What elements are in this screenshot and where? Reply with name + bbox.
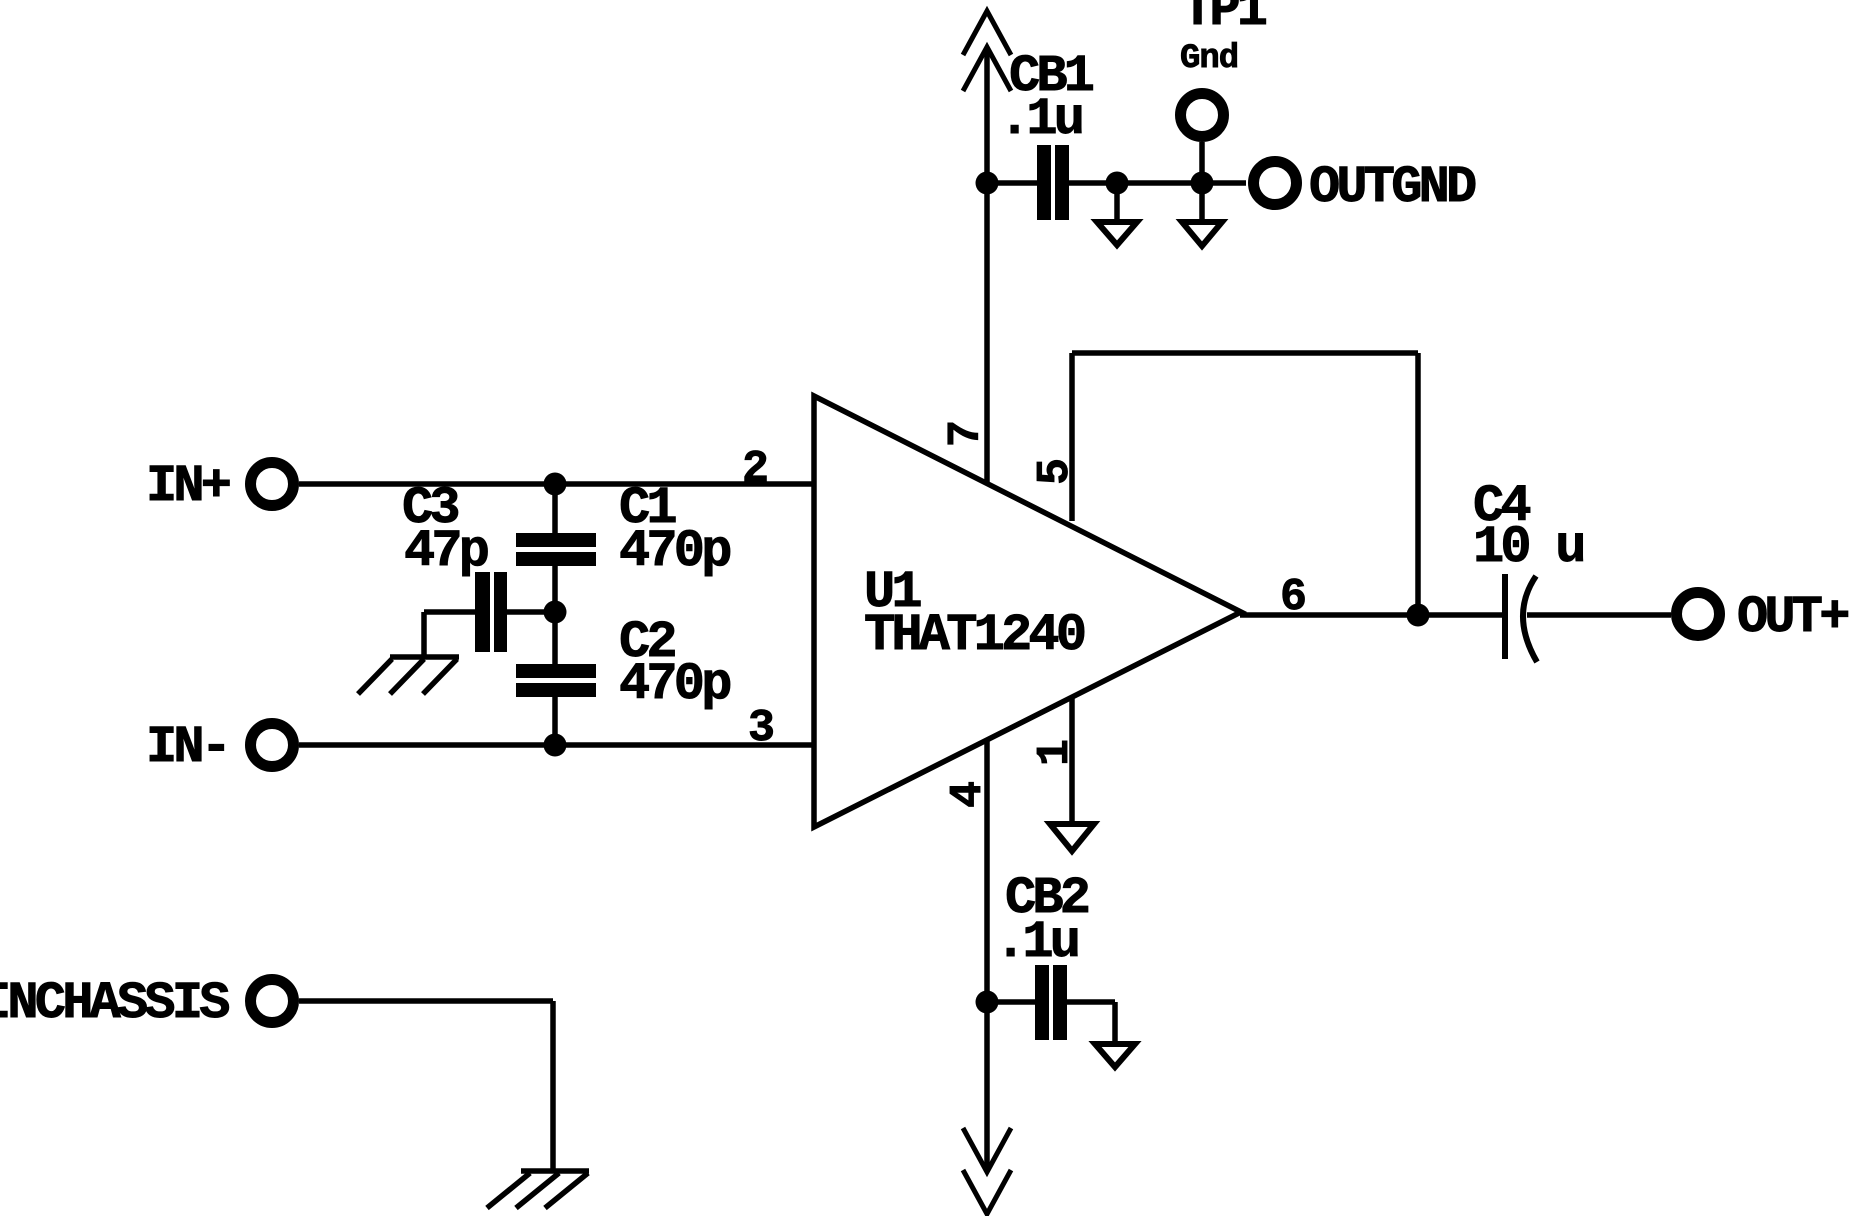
ground arrow under CB2 (1095, 1044, 1135, 1067)
node junction V+ / CB1 (976, 172, 999, 195)
wire IN- horizontal (299, 742, 814, 748)
svg-text:470p: 470p (619, 655, 730, 714)
svg-text:INCHASSIS: INCHASSIS (0, 974, 229, 1033)
wire CB1 right to OUTGND (1069, 180, 1246, 186)
wire CB2 right (1067, 999, 1115, 1005)
node junction CB1/gnd (1106, 172, 1129, 195)
wire vertical C2 bottom segment (552, 695, 558, 745)
wire V- rail pin4 (984, 740, 990, 1172)
wire C4 to OUT+ (1527, 612, 1671, 618)
svg-text:2: 2 (742, 444, 769, 495)
ground arrow under TP1 (1182, 183, 1222, 246)
node junction feedback/output (1407, 604, 1430, 627)
svg-text:OUTGND: OUTGND (1309, 158, 1476, 217)
wire C3 ground drop (421, 612, 427, 657)
terminal IN+ (146, 457, 294, 516)
node junction IN+/C1 (544, 473, 567, 496)
wire pin5 vertical (1069, 353, 1075, 521)
ground arrow under CB1 (1097, 183, 1137, 245)
svg-text:THAT1240: THAT1240 (864, 606, 1085, 665)
svg-text:IN-: IN- (146, 718, 228, 777)
wire CB2 left (987, 999, 1035, 1005)
capacitor CB1 .1u (999, 47, 1093, 220)
wire output pin6 (1240, 612, 1502, 618)
svg-text:IN+: IN+ (146, 457, 230, 516)
svg-text:10 u: 10 u (1473, 518, 1583, 577)
svg-text:.1u: .1u (999, 90, 1082, 149)
wire vertical between C1 and C2 (552, 565, 558, 666)
svg-text:.1u: .1u (995, 913, 1078, 972)
wire C3 left (424, 609, 475, 615)
power symbol V+ up arrow (963, 11, 1011, 91)
capacitor C4 10u (1473, 477, 1583, 662)
chassis ground INCHASSIS (487, 1171, 589, 1208)
node junction C1/C2/C3 (544, 601, 567, 624)
terminal IN- (146, 718, 294, 777)
power symbol V- down arrow (963, 1128, 1011, 1214)
wire V+ rail pin7 (984, 49, 990, 483)
capacitor C2 470p (516, 613, 730, 714)
wire INCHASSIS horizontal (299, 998, 553, 1004)
node junction V-/CB2 (976, 991, 999, 1014)
node junction IN-/C2 (544, 734, 567, 757)
terminal OUT+ (1677, 588, 1849, 647)
wire IN+ horizontal (299, 481, 814, 487)
terminal INCHASSIS (0, 974, 294, 1033)
wire CB1 left (987, 180, 1037, 186)
wire feedback right vertical (1415, 353, 1421, 615)
ground arrow under pin1 (1050, 824, 1094, 851)
wire INCHASSIS vertical (550, 1001, 556, 1171)
op-amp U1 THAT1240 (814, 396, 1241, 827)
node junction TP1 (1191, 172, 1214, 195)
wire CB2 ground drop (1112, 1002, 1118, 1044)
terminal OUTGND (1254, 158, 1477, 217)
svg-text:3: 3 (748, 703, 775, 754)
svg-text:Gnd: Gnd (1180, 40, 1238, 78)
capacitor C3 47p (402, 479, 507, 652)
wire C3 right (507, 609, 555, 615)
chassis ground under C3 (358, 657, 459, 694)
svg-text:OUT+: OUT+ (1737, 588, 1848, 647)
svg-text:47p: 47p (404, 522, 488, 581)
wire feedback top (1072, 350, 1418, 356)
test point TP1 Gnd (1180, 0, 1266, 183)
wire pin1 vertical (1069, 698, 1075, 824)
wire vertical C1 top segment (552, 484, 558, 535)
svg-text:470p: 470p (619, 522, 730, 581)
svg-text:TP1: TP1 (1182, 0, 1266, 40)
capacitor CB2 .1u (995, 869, 1089, 1040)
capacitor C1 470p (516, 479, 730, 581)
